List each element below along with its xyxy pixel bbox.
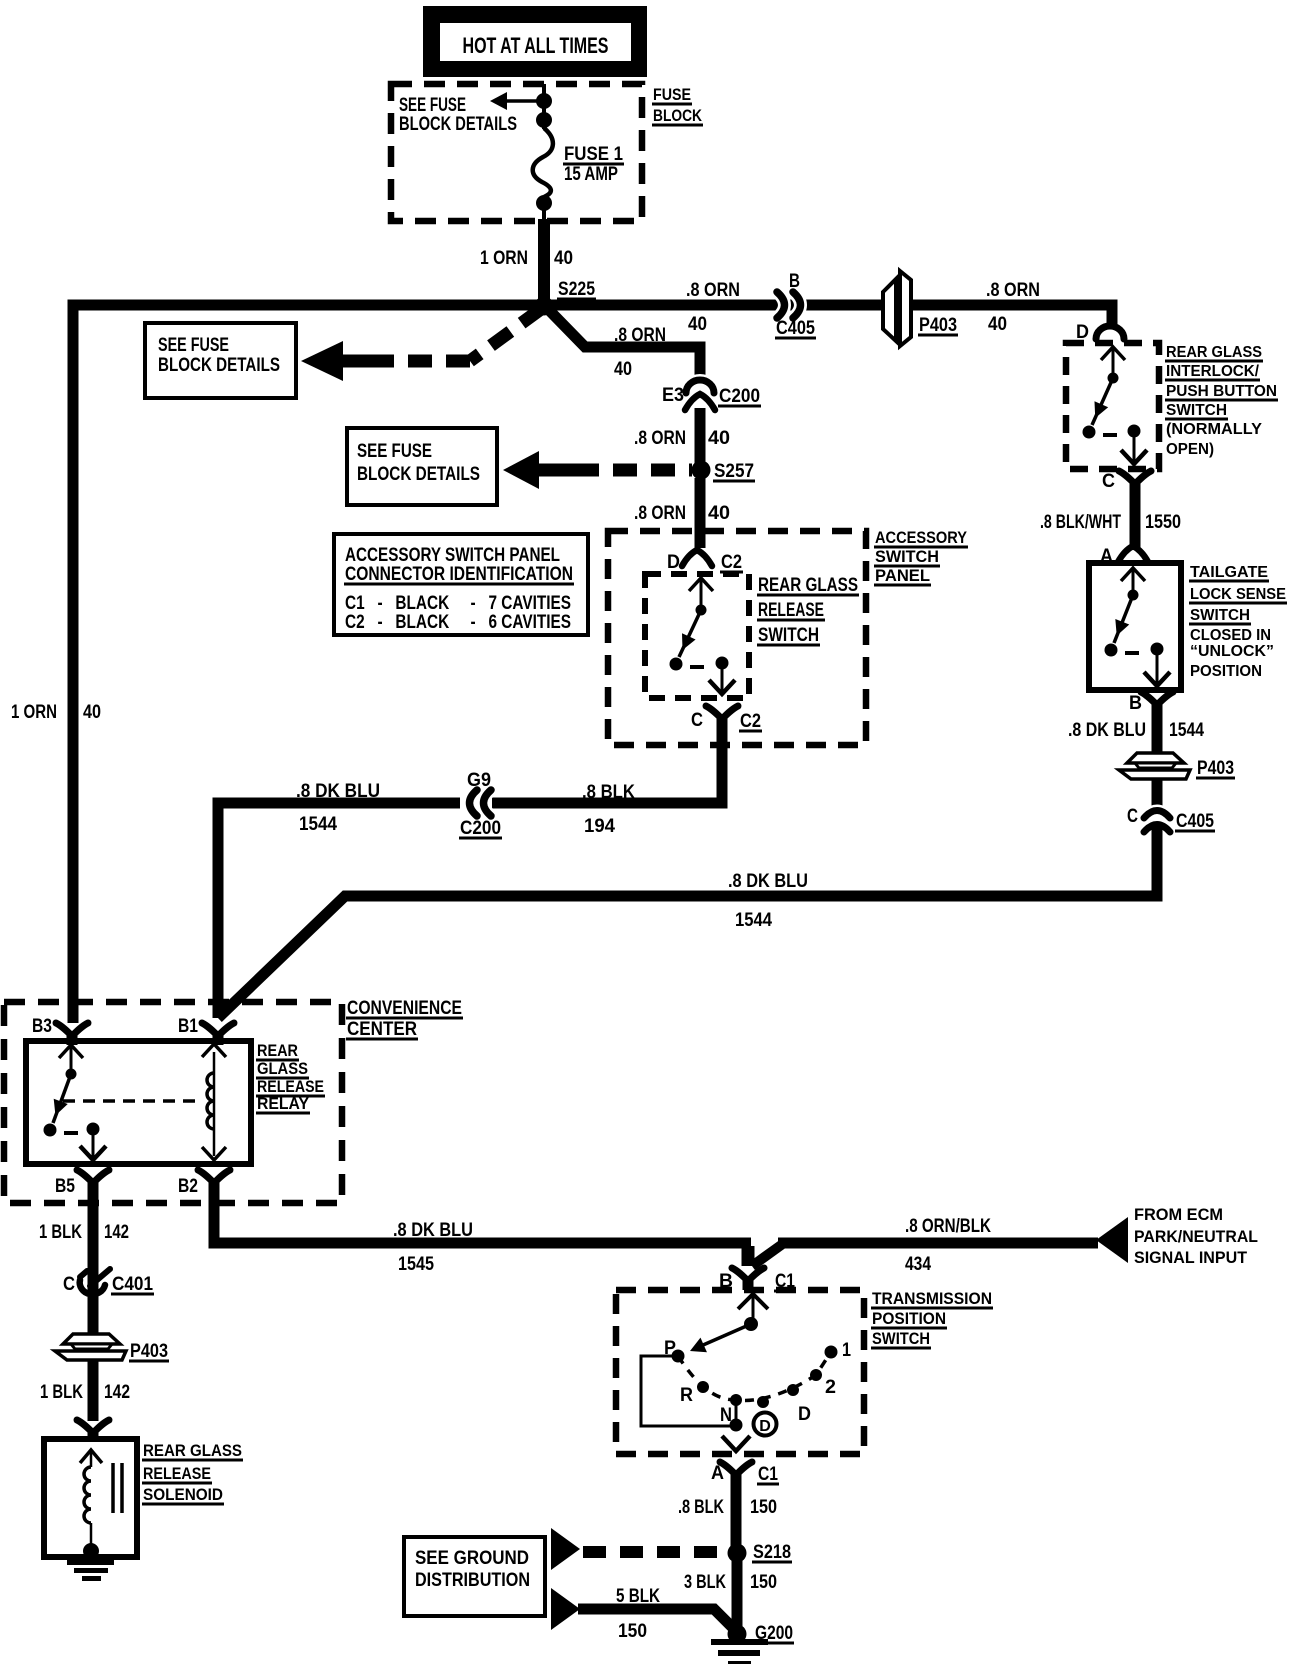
transmission switch input arrow xyxy=(738,1294,768,1309)
dashed arrow from S225 to fuse details xyxy=(470,309,541,361)
arrow to see ground distribution (lower) xyxy=(551,1588,580,1630)
see fuse block details box (middle) xyxy=(347,428,497,505)
svg-text:C200: C200 xyxy=(719,386,760,407)
svg-text:40: 40 xyxy=(988,314,1007,335)
switch contact arrow (input) xyxy=(689,578,713,591)
wire between P403 and C405 xyxy=(1152,779,1163,806)
connector pin D of interlock switch xyxy=(1096,326,1124,339)
ground symbol below solenoid xyxy=(67,1560,114,1565)
svg-text:REAR: REAR xyxy=(257,1041,298,1060)
svg-text:ACCESSORY: ACCESSORY xyxy=(875,528,968,547)
svg-text:FUSE: FUSE xyxy=(653,85,691,104)
position contact dots P R N D 2 1 xyxy=(672,1350,685,1363)
svg-text:1: 1 xyxy=(842,1340,851,1361)
switch pivot dot xyxy=(696,605,707,616)
switch contact dash xyxy=(1103,433,1117,437)
wire .8 ORN 40 from S257 to accessory switch panel xyxy=(695,478,706,548)
relay actuation dashed link xyxy=(63,1099,203,1103)
wire .8 DK BLU 1544 from C200 to B1 xyxy=(218,803,460,1018)
wire 5 BLK 150 to G200 xyxy=(578,1609,735,1630)
rear glass release solenoid box xyxy=(44,1439,137,1557)
wire .8 BLK 194 from release switch to C200 xyxy=(492,720,722,803)
svg-text:REAR GLASS: REAR GLASS xyxy=(143,1441,242,1460)
switch lower-left contact dot xyxy=(1083,426,1096,439)
splice S257 xyxy=(692,461,711,480)
svg-text:C1 - BLACK - 7 CAVIT: C1 - BLACK - 7 CAVITIES xyxy=(345,593,571,614)
svg-text:ACCESSORY SWITCH PANEL: ACCESSORY SWITCH PANEL xyxy=(345,545,560,566)
svg-text:15 AMP: 15 AMP xyxy=(564,164,618,185)
switch contact dash xyxy=(690,665,704,669)
switch pivot dot xyxy=(1128,590,1139,601)
connector C200 pin G9 (double chevron left) xyxy=(470,790,478,816)
switch lower-left contact dot xyxy=(670,658,683,671)
wire .8 BLK 150 to S218 xyxy=(731,1478,742,1549)
svg-text:SEE FUSE: SEE FUSE xyxy=(399,95,466,116)
rear glass release relay box xyxy=(26,1041,251,1164)
connector P403 grommet symbol xyxy=(1127,753,1184,763)
svg-text:150: 150 xyxy=(618,1621,647,1642)
wire .8 DK BLU 1544 long run to convenience center B1 xyxy=(218,826,1157,1018)
connector C405 pin B (double chevron) xyxy=(777,292,785,318)
svg-text:C: C xyxy=(1102,471,1115,492)
svg-text:P403: P403 xyxy=(919,315,957,336)
svg-text:BLOCK: BLOCK xyxy=(653,106,703,125)
svg-text:SOLENOID: SOLENOID xyxy=(143,1485,223,1504)
switch output arrow xyxy=(92,1129,95,1157)
svg-text:B: B xyxy=(1129,693,1142,714)
svg-text:C1: C1 xyxy=(758,1464,778,1485)
svg-text:OPEN): OPEN) xyxy=(1166,441,1214,458)
switch contact arrow (input) xyxy=(59,1045,83,1058)
wire .8 BLK/WHT 1550 xyxy=(1130,485,1141,550)
svg-text:5 BLK: 5 BLK xyxy=(616,1586,660,1607)
circled D indicator xyxy=(754,1413,777,1436)
switch movable arm xyxy=(53,1074,71,1123)
connector C2 pin D of release switch xyxy=(682,550,712,566)
fuse block (dashed) xyxy=(391,84,642,221)
wire to P403 xyxy=(88,1295,99,1338)
svg-text:40: 40 xyxy=(83,702,101,723)
splice S225 xyxy=(535,297,554,316)
rear glass release switch box (dashed) xyxy=(645,574,749,698)
svg-text:C200: C200 xyxy=(460,818,501,839)
connector P403 grommet symbol (left) xyxy=(63,1334,120,1344)
transmission position switch box (dashed) xyxy=(616,1290,864,1454)
svg-text:1 BLK: 1 BLK xyxy=(39,1222,82,1243)
svg-text:A: A xyxy=(711,1463,724,1484)
splice S218 xyxy=(728,1544,747,1563)
svg-text:B3: B3 xyxy=(32,1016,52,1037)
see fuse block details box (upper) xyxy=(145,323,296,398)
connector C405 pin C (double chevron up) xyxy=(1144,811,1170,819)
svg-text:RELAY: RELAY xyxy=(257,1094,310,1113)
wire 1 BLK 142 from P403 to solenoid xyxy=(88,1359,99,1421)
wire 3 BLK 150 from S218 to G200 xyxy=(732,1558,743,1630)
switch pivot dot xyxy=(1108,373,1119,384)
svg-text:142: 142 xyxy=(104,1382,130,1403)
switch lower-left contact dot xyxy=(1105,644,1118,657)
solenoid core lines xyxy=(111,1463,115,1513)
svg-text:D: D xyxy=(759,1418,771,1435)
svg-text:SEE FUSE: SEE FUSE xyxy=(158,335,229,356)
svg-text:S257: S257 xyxy=(714,461,754,482)
svg-text:C2: C2 xyxy=(721,552,742,573)
svg-text:150: 150 xyxy=(750,1572,777,1593)
svg-text:SIGNAL INPUT: SIGNAL INPUT xyxy=(1134,1248,1248,1267)
svg-text:SWITCH: SWITCH xyxy=(872,1329,930,1348)
svg-text:.8 ORN: .8 ORN xyxy=(614,325,666,346)
wire .8 ORN 40 to S257 xyxy=(695,408,706,463)
svg-text:1545: 1545 xyxy=(398,1254,434,1275)
svg-text:3 BLK: 3 BLK xyxy=(684,1572,726,1593)
connector pin C of interlock switch xyxy=(1130,480,1141,493)
accessory switch panel connector identification table xyxy=(334,534,588,635)
svg-text:1 ORN: 1 ORN xyxy=(11,702,57,723)
wire 1 BLK 142 from B5 to C401 xyxy=(88,1184,99,1272)
fuse F1 element (squiggle) xyxy=(533,128,553,197)
svg-text:REAR GLASS: REAR GLASS xyxy=(758,575,858,596)
rotor arm pointing to P xyxy=(694,1324,751,1349)
svg-text:40: 40 xyxy=(554,248,573,269)
svg-text:G9: G9 xyxy=(467,770,491,791)
arrow to fuse block details xyxy=(506,99,544,103)
switch output arrow xyxy=(1133,431,1136,461)
svg-text:SEE GROUND: SEE GROUND xyxy=(415,1548,529,1569)
svg-text:SWITCH: SWITCH xyxy=(1190,607,1250,624)
svg-text:D: D xyxy=(667,552,680,573)
svg-text:150: 150 xyxy=(750,1497,777,1518)
ground G200 xyxy=(728,1625,747,1644)
power feed banner HOT AT ALL TIMES xyxy=(423,6,647,77)
switch lower-right contact dot xyxy=(716,657,729,670)
svg-text:C2: C2 xyxy=(740,711,761,732)
dot below fuse element xyxy=(536,195,552,211)
svg-text:.8 BLK/WHT: .8 BLK/WHT xyxy=(1040,512,1121,533)
wire 1 ORN 40 from fuse to S225 xyxy=(538,219,550,302)
svg-text:REAR GLASS: REAR GLASS xyxy=(1166,344,1262,361)
connector pin at solenoid xyxy=(88,1429,99,1442)
svg-text:SWITCH: SWITCH xyxy=(875,547,939,566)
svg-text:.8 BLK: .8 BLK xyxy=(678,1497,724,1518)
svg-text:RELEASE: RELEASE xyxy=(758,600,824,621)
svg-text:.8 DK BLU: .8 DK BLU xyxy=(296,781,380,802)
svg-text:LOCK SENSE: LOCK SENSE xyxy=(1190,586,1286,603)
rotor pivot dot xyxy=(744,1317,758,1331)
wire main feed left from S225 down left side to B3 xyxy=(73,305,544,1023)
svg-text:FROM ECM: FROM ECM xyxy=(1134,1205,1223,1224)
connector pin B of tailgate lock sense switch xyxy=(1152,701,1163,714)
svg-text:BLOCK DETAILS: BLOCK DETAILS xyxy=(357,464,480,485)
svg-text:1 ORN: 1 ORN xyxy=(480,248,528,269)
switch lower-left contact dot xyxy=(44,1124,57,1137)
output arrow of transmission switch xyxy=(722,1436,750,1451)
svg-text:B2: B2 xyxy=(178,1176,198,1197)
arrow to see ground distribution (upper) xyxy=(551,1528,580,1570)
neutral contact path rectangle xyxy=(641,1356,736,1426)
svg-text:.8 ORN: .8 ORN xyxy=(634,503,686,524)
svg-text:C: C xyxy=(63,1274,75,1295)
svg-text:S225: S225 xyxy=(558,279,595,300)
switch lower-right contact dot xyxy=(1128,425,1141,438)
rear glass interlock push button switch box (dashed) xyxy=(1066,343,1159,469)
svg-text:CONNECTOR IDENTIFICATION: CONNECTOR IDENTIFICATION xyxy=(345,564,573,585)
connector C2 pin C of release switch xyxy=(717,715,728,728)
svg-text:.8 DK BLU: .8 DK BLU xyxy=(1068,720,1146,741)
svg-text:SWITCH: SWITCH xyxy=(1166,402,1227,419)
svg-text:2: 2 xyxy=(825,1377,836,1398)
wire .8 DK BLU 1545 from B2 xyxy=(214,1184,751,1243)
svg-text:.8 ORN: .8 ORN xyxy=(634,428,686,449)
connector C200 pin E3 xyxy=(686,380,714,393)
connector P403 bulkhead symbol xyxy=(883,279,896,341)
svg-text:C: C xyxy=(691,710,703,731)
svg-text:40: 40 xyxy=(708,503,730,524)
switch contact dash xyxy=(1125,651,1139,655)
svg-text:.8 DK BLU: .8 DK BLU xyxy=(393,1220,473,1241)
convenience center box (dashed) xyxy=(4,1002,342,1203)
svg-text:142: 142 xyxy=(104,1222,129,1243)
switch movable arm xyxy=(679,610,701,657)
svg-text:PUSH BUTTON: PUSH BUTTON xyxy=(1166,383,1277,400)
switch movable arm xyxy=(1114,595,1133,643)
svg-text:SEE FUSE: SEE FUSE xyxy=(357,441,432,462)
svg-text:C: C xyxy=(1127,806,1138,827)
svg-text:1544: 1544 xyxy=(299,814,337,835)
svg-text:194: 194 xyxy=(584,816,615,837)
svg-text:.8 ORN: .8 ORN xyxy=(686,280,740,301)
svg-text:TRANSMISSION: TRANSMISSION xyxy=(872,1289,992,1308)
svg-text:TAILGATE: TAILGATE xyxy=(1190,564,1268,581)
wire .8 ORN 40 branch from S225 to C200 xyxy=(546,307,700,381)
svg-text:POSITION: POSITION xyxy=(872,1309,946,1328)
see ground distribution box xyxy=(404,1537,545,1616)
connector C401 pin C xyxy=(80,1280,105,1294)
svg-text:INTERLOCK/: INTERLOCK/ xyxy=(1166,363,1260,380)
svg-text:P403: P403 xyxy=(1197,758,1234,779)
svg-text:GLASS: GLASS xyxy=(257,1059,308,1078)
svg-text:1550: 1550 xyxy=(1145,512,1181,533)
svg-text:B5: B5 xyxy=(55,1176,75,1197)
svg-text:PANEL: PANEL xyxy=(875,566,930,585)
junction dot at N output xyxy=(730,1419,743,1432)
connector pin B5 xyxy=(88,1179,99,1192)
switch lower-right contact dot xyxy=(87,1123,100,1136)
svg-text:E3: E3 xyxy=(662,385,684,406)
arrow FROM ECM PARK/NEUTRAL SIGNAL INPUT xyxy=(1096,1217,1128,1263)
svg-text:DISTRIBUTION: DISTRIBUTION xyxy=(415,1570,530,1591)
svg-text:C405: C405 xyxy=(776,318,815,339)
svg-text:BLOCK DETAILS: BLOCK DETAILS xyxy=(399,114,517,135)
tailgate lock sense switch box xyxy=(1089,563,1181,690)
switch pivot dot xyxy=(66,1069,77,1080)
wire inside fuse block xyxy=(542,84,546,129)
switch contact dash xyxy=(64,1131,78,1135)
svg-text:(NORMALLY: (NORMALLY xyxy=(1166,421,1262,438)
svg-text:40: 40 xyxy=(708,428,730,449)
switch lower-right contact dot xyxy=(1151,643,1164,656)
svg-text:C2 - BLACK - 6 CAVIT: C2 - BLACK - 6 CAVITIES xyxy=(345,612,571,633)
svg-text:434: 434 xyxy=(905,1254,931,1275)
switch movable arm xyxy=(1092,378,1113,425)
solenoid input arrow xyxy=(80,1450,102,1463)
svg-text:1544: 1544 xyxy=(735,910,772,931)
svg-text:.8 DK BLU: .8 DK BLU xyxy=(728,871,808,892)
solenoid coil xyxy=(84,1467,91,1523)
svg-text:.8 BLK: .8 BLK xyxy=(582,782,635,803)
svg-text:40: 40 xyxy=(688,314,707,335)
switch output arrow xyxy=(1156,649,1159,683)
svg-text:1 BLK: 1 BLK xyxy=(40,1382,83,1403)
svg-text:S218: S218 xyxy=(753,1542,791,1563)
dashed selector arc xyxy=(678,1352,831,1400)
svg-text:B1: B1 xyxy=(178,1016,198,1037)
switch output arrow xyxy=(721,663,724,691)
junction stub to connector B C1 xyxy=(742,1246,755,1266)
svg-text:RELEASE: RELEASE xyxy=(143,1464,211,1483)
switch contact arrow (input) xyxy=(1101,347,1125,360)
dashed arrow from S257 to fuse details xyxy=(537,464,575,477)
wire .8 ORN/BLK 434 to ECM xyxy=(778,1238,1098,1249)
svg-text:40: 40 xyxy=(614,359,632,380)
svg-text:POSITION: POSITION xyxy=(1190,663,1262,680)
svg-text:C401: C401 xyxy=(112,1274,153,1295)
dot above fuse element xyxy=(536,112,552,128)
svg-text:C405: C405 xyxy=(1176,811,1214,832)
connector C1 pin A of transmission position switch xyxy=(731,1471,742,1484)
svg-text:P403: P403 xyxy=(130,1341,168,1362)
svg-text:SWITCH: SWITCH xyxy=(758,625,819,646)
svg-text:HOT AT ALL TIMES: HOT AT ALL TIMES xyxy=(463,33,609,58)
dashed wire to ground distribution xyxy=(583,1546,726,1558)
junction dot at fuse feed xyxy=(536,93,552,109)
svg-text:1544: 1544 xyxy=(1169,720,1204,741)
svg-text:“UNLOCK”: “UNLOCK” xyxy=(1190,643,1274,660)
accessory switch panel box (dashed) xyxy=(608,531,866,745)
svg-text:PARK/NEUTRAL: PARK/NEUTRAL xyxy=(1134,1227,1258,1246)
svg-text:D: D xyxy=(798,1404,811,1425)
solenoid ground junction dot xyxy=(83,1543,99,1559)
svg-text:CENTER: CENTER xyxy=(347,1019,417,1040)
switch contact arrow (input) xyxy=(1121,568,1145,581)
svg-text:CONVENIENCE: CONVENIENCE xyxy=(347,998,462,1019)
wire .8 DK BLU 1544 below tailgate switch xyxy=(1152,705,1163,754)
connector pin B1 xyxy=(213,1032,224,1045)
connector pin A of tailgate lock sense switch xyxy=(1118,546,1148,562)
svg-text:R: R xyxy=(680,1385,693,1406)
connector C1 pin B of transmission position switch xyxy=(743,1277,754,1290)
svg-text:.8 ORN/BLK: .8 ORN/BLK xyxy=(905,1216,991,1237)
relay coil xyxy=(213,1052,216,1156)
connector pin B2 xyxy=(209,1179,220,1192)
svg-text:CLOSED IN: CLOSED IN xyxy=(1190,627,1271,644)
svg-text:FUSE 1: FUSE 1 xyxy=(564,144,623,165)
wire .8 ORN from S225 right to rear glass interlock switch xyxy=(544,305,1112,324)
svg-text:B: B xyxy=(789,271,800,292)
svg-text:.8 ORN: .8 ORN xyxy=(986,280,1040,301)
connector pin B3 xyxy=(67,1032,78,1045)
svg-text:BLOCK DETAILS: BLOCK DETAILS xyxy=(158,355,280,376)
